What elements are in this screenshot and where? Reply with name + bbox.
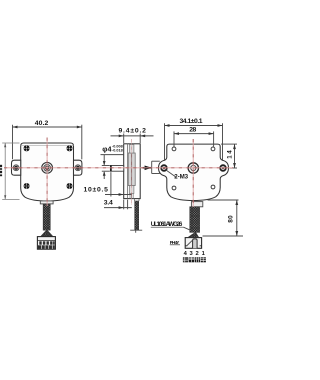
faceplate inner line <box>21 145 74 147</box>
right ear hole <box>75 165 81 171</box>
wire color glyphs (hand-drawn dense blocks) <box>183 257 206 262</box>
dim 9.4 line <box>111 134 154 144</box>
svg-text:80: 80 <box>227 215 234 223</box>
svg-text:4: 4 <box>184 251 188 257</box>
flange boundary line <box>127 144 129 199</box>
left ear <box>12 160 21 175</box>
connector rear <box>185 238 201 249</box>
svg-text:34.1±0.1: 34.1±0.1 <box>180 118 203 125</box>
center boss rear <box>188 163 198 173</box>
screw top-left <box>24 145 30 151</box>
centerline vertical right view <box>192 139 194 207</box>
screw top-right <box>66 145 72 151</box>
svg-text:10±0.5: 10±0.5 <box>84 186 109 193</box>
dim 28 line <box>174 131 214 146</box>
dim 14 line <box>221 144 237 168</box>
svg-text:1: 1 <box>202 251 206 257</box>
wire braid left view <box>43 204 50 230</box>
dim 80 lines <box>203 200 244 236</box>
svg-text:-0.018: -0.018 <box>112 149 123 153</box>
dim 40.2 line <box>13 125 82 160</box>
wire braid rear <box>190 207 200 233</box>
right ear hole M3 <box>220 165 226 171</box>
2-M3 leader <box>166 170 177 178</box>
shaft tip mark <box>110 165 112 171</box>
inner rotor <box>128 153 135 186</box>
small bracket dim at left ear <box>152 161 160 173</box>
corner hole top-left <box>172 147 176 151</box>
centerline vertical left view <box>46 138 48 207</box>
dim phi4 lines <box>102 155 110 179</box>
centerline horizontal (all views) <box>4 138 233 208</box>
svg-text:9.4±0.2: 9.4±0.2 <box>118 128 146 135</box>
wire braid middle view <box>135 199 140 201</box>
left ear hole M3 <box>161 165 167 171</box>
svg-text:φ4: φ4 <box>102 144 111 153</box>
centerline vertical middle view <box>131 139 133 205</box>
corner hole top-right <box>211 147 215 151</box>
UL1061 AWG26 label <box>151 221 190 230</box>
inner shaft lines <box>130 144 133 199</box>
wire collar rear <box>191 202 202 207</box>
connector left view <box>37 237 55 250</box>
right ear <box>74 160 82 175</box>
motor body outline <box>21 143 74 201</box>
corner hole bottom-right <box>211 185 215 189</box>
svg-text:28: 28 <box>189 126 196 133</box>
svg-text:PH-4Y: PH-4Y <box>170 240 180 245</box>
braid flare rear <box>189 232 198 237</box>
wire end bar middle view <box>130 230 142 233</box>
svg-text:3: 3 <box>189 251 193 257</box>
corner hole bottom-left <box>172 186 176 190</box>
left height dim rotated text (clipped by edge) <box>0 165 2 176</box>
wire collar left view <box>40 201 53 204</box>
left height dim line <box>2 143 19 199</box>
dim 34.1 line <box>165 123 223 160</box>
svg-text:3.4: 3.4 <box>104 199 113 206</box>
PH-4Y label <box>170 240 193 246</box>
screw bottom-right <box>66 183 72 189</box>
svg-text:40.2: 40.2 <box>35 120 49 127</box>
side body rect <box>124 144 141 199</box>
braid flare left view <box>41 230 53 236</box>
shaft <box>110 166 123 172</box>
shaft boss circles center <box>42 162 53 173</box>
svg-text:2: 2 <box>195 251 198 257</box>
svg-text:14: 14 <box>227 150 234 159</box>
motor body outline rear <box>159 144 229 200</box>
left ear hole <box>13 165 19 171</box>
dim 3.4 line <box>104 200 132 210</box>
dim 10±0.5 line <box>105 172 132 196</box>
screw bottom-left <box>24 183 30 189</box>
